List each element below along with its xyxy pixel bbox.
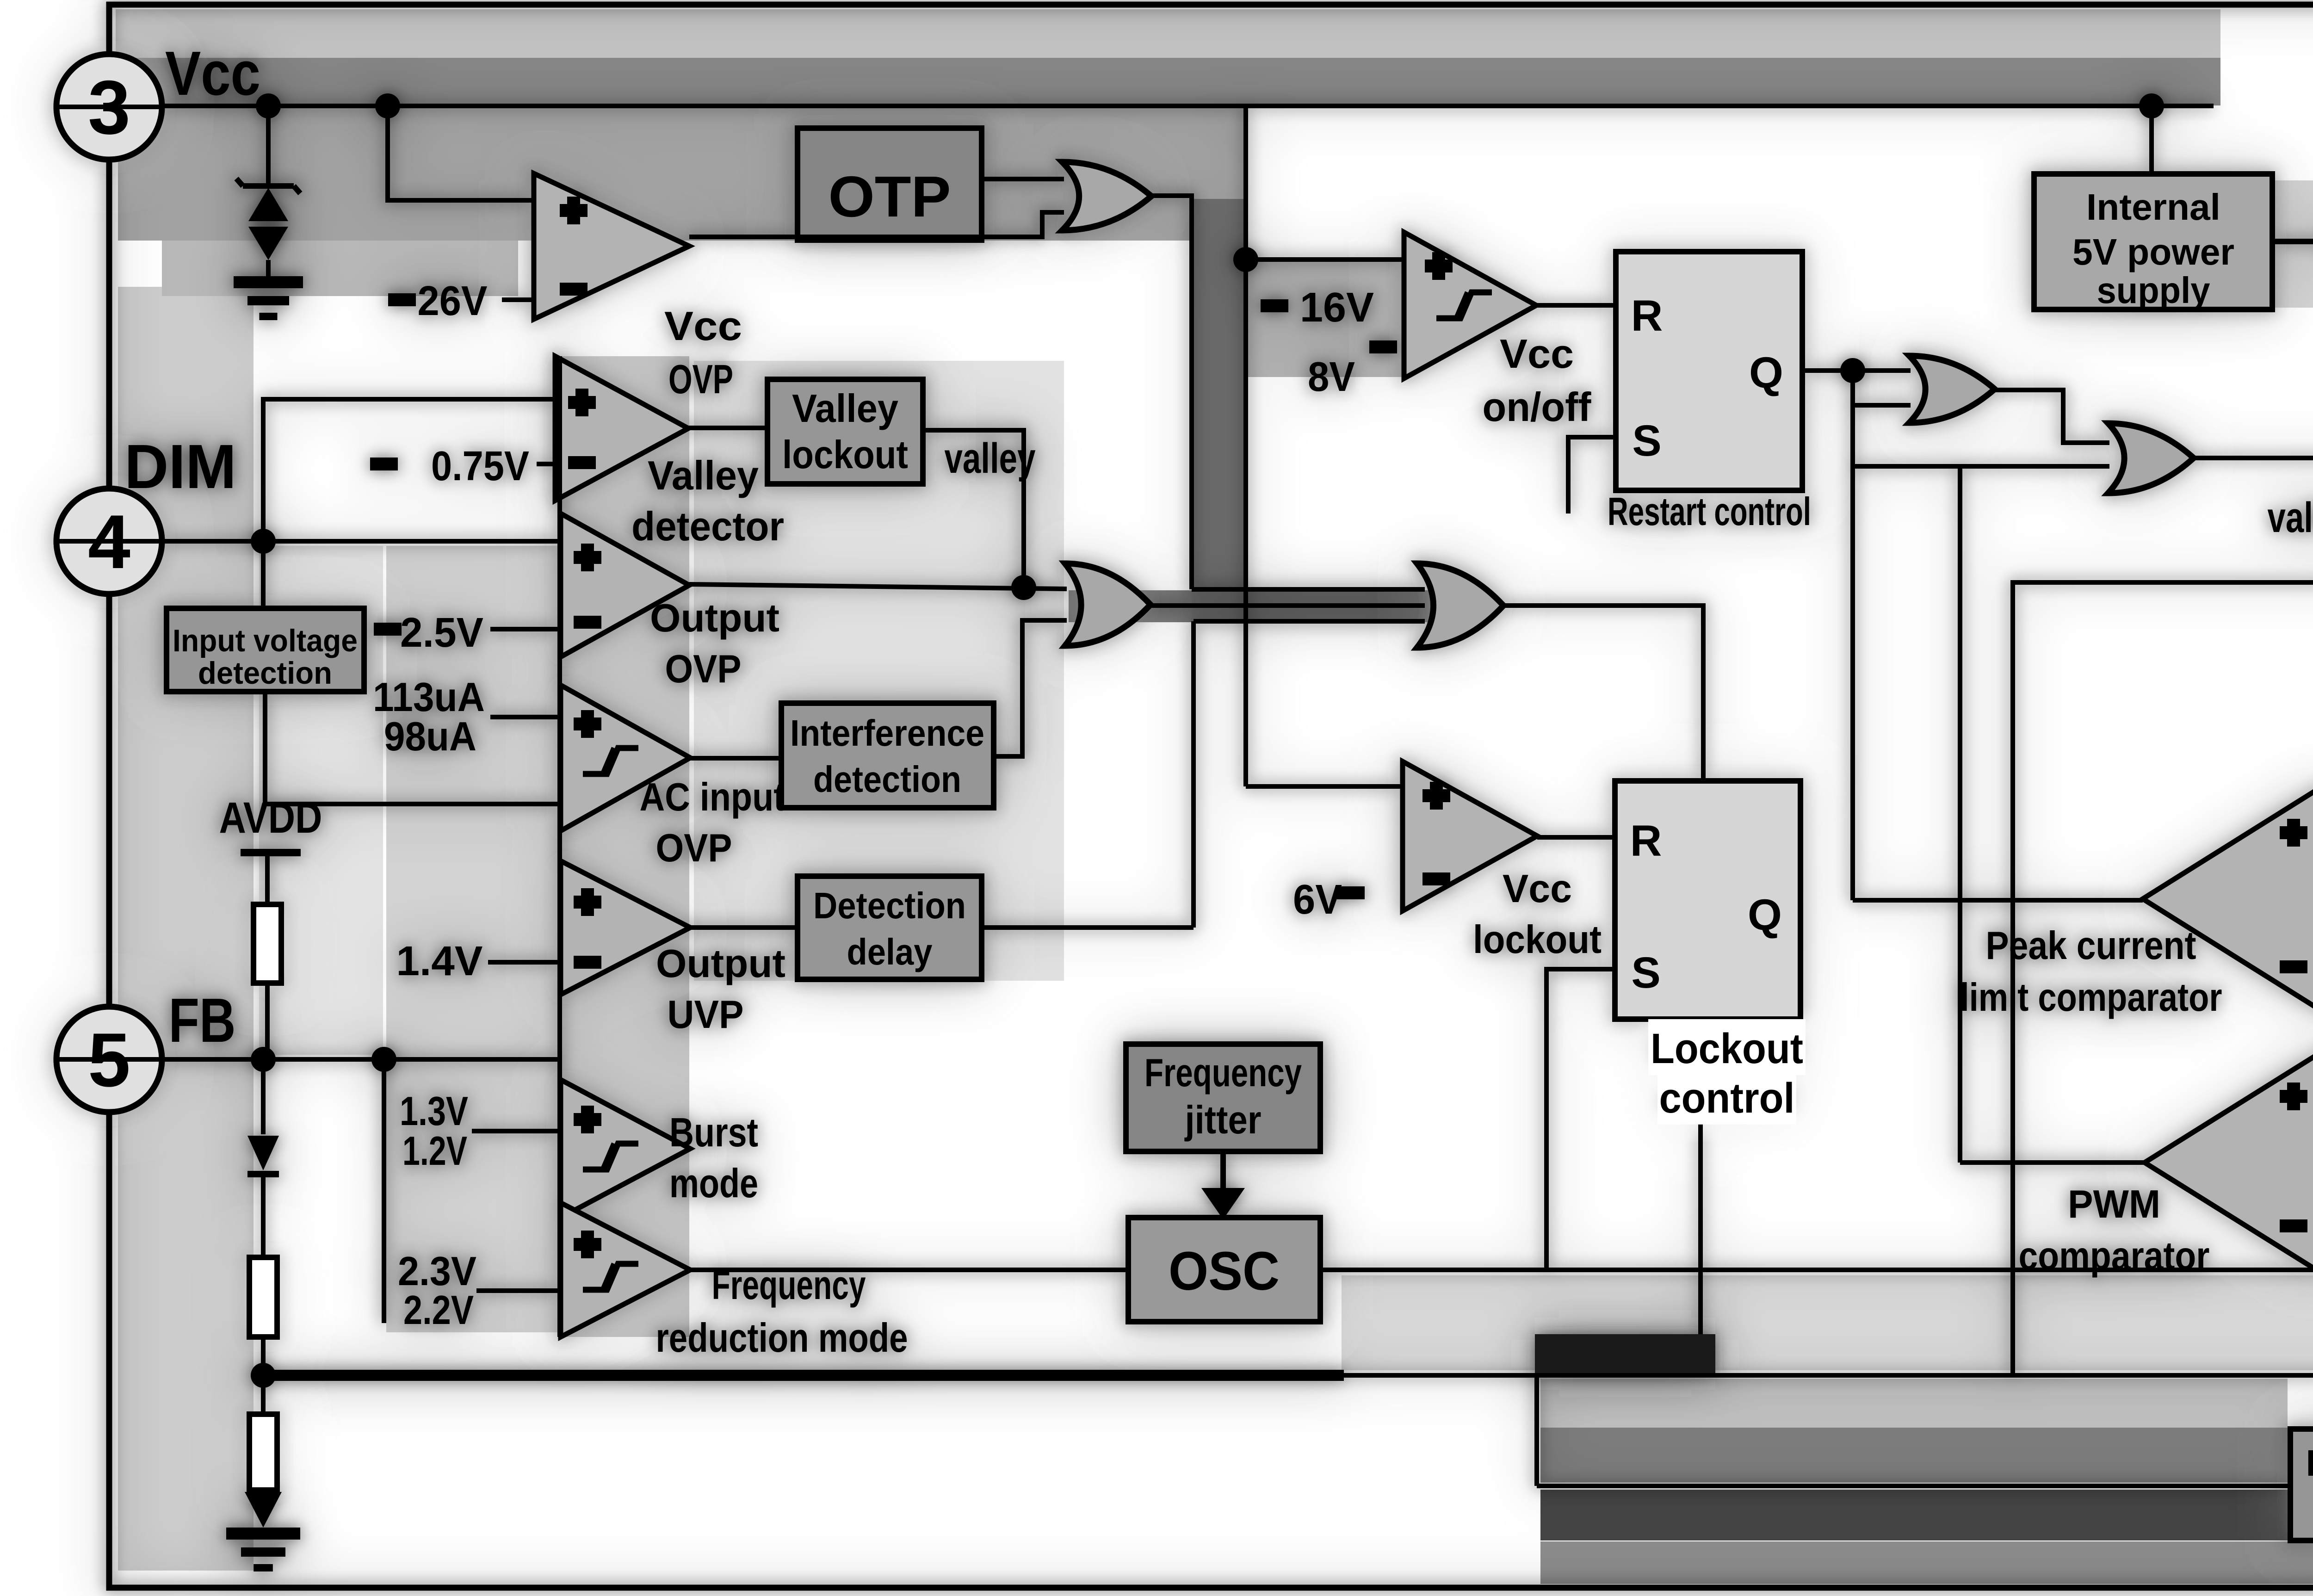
label Lockout control line2 (1657, 1069, 1796, 1125)
wire OTP to OR1 top input (982, 177, 1064, 181)
shade bottom band 1 (1540, 1379, 2288, 1428)
dash right of 2.5V (490, 627, 557, 631)
dash 2.3V to input (476, 1288, 557, 1293)
wire G5 output to lockout latch (1503, 606, 1703, 781)
wire G2 output to G3 (1995, 390, 2109, 443)
wire G5 output to lockout latch (1503, 606, 1703, 781)
wire S input FF2 from valley (2013, 582, 2313, 1375)
comparator U4 output OVP (561, 513, 689, 657)
svg-text:0.75V: 0.75V (431, 443, 529, 489)
wire G3 output to R of logic latch (2194, 456, 2313, 460)
label Lockout control line1 (1648, 1019, 1806, 1075)
dash 1.3V to input (472, 1129, 557, 1133)
plus U7 (574, 1106, 601, 1133)
plus input U2 (1425, 252, 1453, 280)
long feedback bus right (1337, 1373, 2313, 1378)
shade below zener row (162, 241, 518, 296)
minus U6 (574, 956, 601, 969)
wire to detection delay 2 input (1537, 1484, 2290, 1488)
wire detection box output to U5 (265, 692, 561, 804)
arrow jitter to OSC (1220, 1151, 1226, 1194)
svg-text:Lockout: Lockout (1651, 1025, 1803, 1072)
junction Vcc/OVP comparator (375, 93, 400, 118)
resistor R2 (249, 1257, 277, 1337)
wire G4 output to G5 (1150, 603, 1425, 608)
minus input U1 (560, 283, 588, 296)
plus U6 (574, 888, 601, 916)
wire Vcc bus from pin 3 (109, 104, 2214, 108)
long feedback bus left (thick) (263, 1370, 1344, 1381)
comparator U4 output OVP (561, 513, 689, 657)
hysteresis U8 (583, 1264, 638, 1290)
zener diode DZ1 to ground (266, 106, 271, 184)
svg-text:Vcc: Vcc (165, 38, 260, 108)
dash right of 0.75V (537, 462, 557, 466)
diode D2 below FB (261, 1059, 266, 1134)
junction Vcc/UVLO (1233, 247, 1258, 272)
minus U3 (568, 456, 596, 469)
wire G3 output to R of logic latch (2194, 456, 2313, 460)
wire detection delay signal into G5 bottom input (1194, 619, 1425, 624)
resistor R3 (249, 1414, 277, 1490)
wire Vcc to OVP comparator + input (388, 106, 534, 200)
dash 1.3V to input (472, 1129, 557, 1133)
dash 8V (1369, 340, 1397, 353)
arrow jitter to OSC (1220, 1151, 1226, 1194)
wire valley lockout output to OR G4 (923, 430, 1024, 589)
hysteresis U7 (583, 1144, 638, 1169)
hysteresis U5 (583, 748, 638, 774)
dash right of 26V to - input (502, 297, 534, 302)
wire Vcc down to UVLO and lockout comparator (1243, 106, 1248, 786)
plus U8 (574, 1231, 601, 1258)
wire S input FF1 (1568, 437, 1616, 513)
Frequency jitter box (1126, 1044, 1320, 1151)
wire peak current limit comparator output up to G2 (1850, 371, 1855, 900)
Detection delay box 2 (2290, 1429, 2313, 1540)
Input voltage detection box (167, 608, 364, 692)
svg-text:Detection: Detection (813, 885, 966, 926)
wire detection delay output up to G5 (1191, 621, 1196, 928)
wire U2 output to R of restart latch (1536, 303, 1616, 308)
Detection delay box 1 (798, 876, 982, 979)
dash 6V (1337, 886, 1365, 899)
wire U5 output to interference box (690, 756, 781, 761)
comparator U3 valley detector (555, 356, 688, 501)
junction FB divider / bus (251, 1363, 276, 1388)
hysteresis symbol U2 (1436, 292, 1492, 318)
wire detection delay box output (982, 925, 1194, 930)
dash 1.4V to input (488, 960, 557, 965)
minus input U1 (560, 283, 588, 296)
RS latch FF1 Restart control (1616, 252, 1802, 490)
junction Vcc/internal supply (2139, 93, 2164, 118)
junction valley/U4 output (1011, 575, 1036, 600)
junction FB/threshold bus (371, 1047, 396, 1072)
AVDD rail bar (241, 849, 301, 856)
junction Vcc/zener (256, 93, 281, 118)
wire S input FF3 from OSC line (1546, 969, 1615, 1270)
hysteresis U5 (583, 748, 638, 774)
plus U4 (574, 544, 601, 571)
wire interference output up to OR G4 (994, 620, 1067, 756)
dash left of 2.5V (374, 623, 402, 636)
pin 4 (DIM) (56, 489, 162, 594)
shade below Vcc bus (118, 107, 1244, 241)
arrow AVDD output (2272, 239, 2313, 244)
long feedback bus right (1337, 1373, 2313, 1378)
junction valley/U4 output (1011, 575, 1036, 600)
plus U4 (574, 544, 601, 571)
minus U10 (2280, 960, 2307, 973)
minus U11 (2280, 1219, 2307, 1232)
comparator stack input bus (557, 356, 562, 1337)
FB threshold sense bus down (382, 1059, 386, 1323)
hysteresis U7 (583, 1144, 638, 1169)
wire DIM up to valley detector + input (263, 399, 555, 541)
wire detection delay output up to G5 (1191, 621, 1196, 928)
wire Vcc to lockout comparator + input (1246, 784, 1403, 789)
svg-text:98uA: 98uA (384, 713, 476, 759)
comparator U6 output UVP (561, 861, 690, 995)
dash 8V (1369, 340, 1397, 353)
wire U8 output to OSC (690, 1268, 1128, 1272)
AVDD rail bar (241, 849, 301, 856)
RS latch FF3 Lockout control (1615, 781, 1800, 1019)
svg-text:Internal: Internal (2086, 186, 2220, 228)
svg-text:S: S (1632, 416, 1661, 465)
svg-text:PWM: PWM (2068, 1182, 2160, 1226)
wire Q of FF1 to OR gate G2 (1802, 368, 1911, 373)
comparator U8 frequency reduction (561, 1203, 690, 1337)
dash left of 0.75V (370, 458, 398, 470)
wire DIM pin to comparator stack (109, 539, 561, 544)
svg-text:valley: valley (2268, 494, 2313, 541)
svg-text:Peak current: Peak current (1986, 924, 2196, 968)
diode D3 to ground (245, 1492, 282, 1528)
plus U6 (574, 888, 601, 916)
wire U6 output to detection delay (690, 925, 798, 930)
plus input U2 (1425, 252, 1453, 280)
wire Vcc bus from pin 3 (109, 104, 2214, 108)
svg-text:Valley: Valley (792, 387, 898, 431)
plus U4 (574, 544, 601, 571)
wire U4 output to OR G4 top input (689, 584, 1067, 589)
minus U11 (2280, 1219, 2307, 1232)
OR gate G5 (1417, 563, 1503, 648)
wire Vcc to OVP comparator + input (388, 106, 534, 200)
wire Vcc to lockout comparator + input (1246, 784, 1403, 789)
pin 3 (Vcc) (56, 54, 162, 160)
hysteresis symbol U2 (1436, 292, 1492, 318)
svg-text:3: 3 (88, 65, 130, 150)
dash left of 2.5V (374, 623, 402, 636)
Detection delay box 1 (798, 876, 982, 979)
comparator U10 peak current limit (2143, 782, 2313, 1016)
plus U11 (2280, 1083, 2307, 1110)
wire bus down to detection delay 2 (1534, 1375, 1539, 1486)
minus U4 (574, 616, 601, 629)
OR gate G2 (1909, 356, 1995, 423)
wire detection delay output up to G5 (1191, 621, 1196, 928)
wire to G2 lower input (1853, 403, 1911, 408)
comparator U7 burst mode (561, 1080, 690, 1218)
plus U11 (2280, 1083, 2307, 1110)
wire to detection delay 2 input (1537, 1484, 2290, 1488)
svg-text:R: R (1631, 291, 1663, 340)
zener diode DZ1 to ground (266, 106, 271, 184)
dash left of 2.5V (374, 623, 402, 636)
svg-text:2.2V: 2.2V (403, 1287, 474, 1333)
OR gate G4 (1065, 563, 1150, 646)
wire Vcc to internal supply (2149, 106, 2154, 174)
plus U5 (574, 710, 601, 738)
wire U4 output to OR G4 top input (689, 584, 1067, 589)
label Lockout control line2 (1657, 1069, 1796, 1125)
Frequency jitter box (1126, 1044, 1320, 1151)
RS latch FF1 Restart control (1616, 252, 1802, 490)
plus input U1 (560, 197, 588, 224)
wire DIM down to input voltage detection (261, 541, 266, 608)
comparator U6 output UVP (561, 861, 690, 995)
shade threshold column (386, 546, 557, 1332)
plus U9 (1422, 782, 1450, 810)
shade OR bus lines (1069, 590, 1483, 622)
shade comparator stack (561, 356, 689, 1337)
OR gate G1 (OTP / Vcc OVP) (1062, 162, 1151, 230)
svg-text:Q: Q (1749, 348, 1783, 397)
dash left of 26V (388, 293, 416, 306)
svg-text:Detection: Detection (2306, 1442, 2313, 1484)
wire U6 output to detection delay (690, 925, 798, 930)
comparator U7 burst mode (561, 1080, 690, 1218)
svg-text:8V: 8V (1308, 354, 1355, 400)
svg-text:lockout: lockout (782, 433, 908, 477)
shade UVLO input area (1247, 261, 1402, 377)
svg-text:OTP: OTP (829, 165, 951, 229)
dash left of 16V (1261, 299, 1288, 312)
Valley lockout box (767, 379, 923, 484)
wire U3 to valley lockout (688, 426, 767, 430)
wire U5 output to interference box (690, 756, 781, 761)
comparator U1 Vcc OVP (26V) (534, 173, 689, 319)
minus U3 (568, 456, 596, 469)
wire G3 lower input (1853, 464, 2109, 469)
shade bottom band 4 (1540, 1541, 2313, 1584)
OR gate G5 (1417, 563, 1503, 648)
comparator U2 Vcc on/off (UVLO) (1404, 232, 1536, 378)
resistor R1 AVDD to FB (254, 904, 281, 983)
wire detection delay signal into G5 bottom input (1194, 619, 1425, 624)
minus U10 (2280, 960, 2307, 973)
minus U3 (568, 456, 596, 469)
pin 5 (FB) (56, 1007, 162, 1112)
OR gate G1 (OTP / Vcc OVP) (1062, 162, 1151, 230)
svg-text:S: S (1631, 948, 1660, 997)
svg-text:comparator: comparator (2019, 1234, 2210, 1278)
plus U10 (2280, 819, 2307, 847)
wire detection delay box output (982, 925, 1194, 930)
wire U4 output to OR G4 top input (689, 584, 1067, 589)
wire to UVLO + input (1246, 257, 1404, 262)
junction FB divider / bus (251, 1363, 276, 1388)
Valley lockout box (767, 379, 923, 484)
wire U8 output to OSC (690, 1268, 1128, 1272)
comparator U8 frequency reduction (561, 1203, 690, 1337)
resistor R1 AVDD to FB (254, 904, 281, 983)
svg-text:5: 5 (88, 1017, 130, 1102)
comparator U5 AC input OVP (561, 685, 690, 831)
dash right of 2.5V (490, 627, 557, 631)
wire interference output up to OR G4 (994, 620, 1067, 756)
pin 4 (DIM) (56, 489, 162, 594)
wire DIM pin to comparator stack (109, 539, 561, 544)
wire to G2 lower input (1853, 403, 1911, 408)
resistor R2 (249, 1257, 277, 1337)
OR gate G2 (1909, 356, 1995, 423)
svg-text:OVP: OVP (665, 647, 742, 691)
svg-text:1.3V: 1.3V (400, 1088, 468, 1134)
svg-text:6V: 6V (1293, 877, 1342, 923)
wire U2 output to R of restart latch (1536, 303, 1616, 308)
wire OTP to OR1 top input (982, 177, 1064, 181)
shade top band upper (116, 9, 2220, 58)
dash 1.4V to input (488, 960, 557, 965)
resistor R1 AVDD to FB (254, 904, 281, 983)
wire S input FF2 from valley (2013, 582, 2313, 1375)
dash 1.3V to input (472, 1129, 557, 1133)
wire Q of FF1 to OR gate G2 (1802, 368, 1911, 373)
long feedback bus left (thick) (263, 1370, 1344, 1381)
wire U9 output to R of lockout latch (1537, 835, 1615, 840)
svg-text:Frequency: Frequency (1144, 1051, 1302, 1095)
plus U3 (568, 389, 596, 416)
wire S input FF1 (1568, 437, 1616, 513)
plus U3 (568, 389, 596, 416)
svg-text:Vcc: Vcc (1503, 867, 1572, 911)
svg-text:Output: Output (656, 942, 785, 986)
svg-text:2.5V: 2.5V (400, 610, 483, 656)
arrow AVDD output (2272, 239, 2313, 244)
plus U5 (574, 710, 601, 738)
dash 113uA to input (490, 715, 557, 719)
Internal 5V power supply box (2034, 174, 2272, 309)
RS latch FF3 Lockout control (1615, 781, 1800, 1019)
plus U6 (574, 888, 601, 916)
wire branch down from G3 input (1958, 466, 1962, 1163)
svg-text:OVP: OVP (656, 826, 732, 870)
OR gate G2 (1909, 356, 1995, 423)
OTP box (798, 128, 982, 240)
shade left column (118, 287, 254, 1571)
shade vertical pair (1194, 199, 1247, 588)
plus U11 (2280, 1083, 2307, 1110)
wire U6 output to detection delay (690, 925, 798, 930)
Input voltage detection box (167, 608, 364, 692)
wire FF3 output down to bus (1698, 1019, 1703, 1375)
plus input U2 (1425, 252, 1453, 280)
OSC box (1128, 1218, 1320, 1322)
svg-text:Output: Output (650, 596, 779, 640)
shade bottom band 3 (1540, 1490, 2313, 1540)
label Lockout control line1 (1648, 1019, 1806, 1075)
svg-text:1.2V: 1.2V (402, 1128, 467, 1174)
comparator U9 Vcc lockout (1403, 761, 1537, 911)
Interference detection box (781, 703, 994, 808)
wire bus down to detection delay 2 (1534, 1375, 1539, 1486)
RS latch FF1 Restart control (1616, 252, 1802, 490)
svg-text:DIM: DIM (124, 432, 236, 501)
Valley lockout box (767, 379, 923, 484)
wire U8 output to OSC (690, 1268, 1128, 1272)
svg-text:1.4V: 1.4V (396, 938, 483, 984)
OR gate G4 (1065, 563, 1150, 646)
plus U3 (568, 389, 596, 416)
comparator U3 valley detector (555, 356, 688, 501)
svg-text:R: R (1630, 817, 1662, 866)
plus U10 (2280, 819, 2307, 847)
resistor R3 (249, 1414, 277, 1490)
svg-text:OVP: OVP (668, 356, 733, 402)
wire Vcc down to UVLO and lockout comparator (1243, 106, 1248, 786)
wire to UVLO + input (1246, 257, 1404, 262)
comparator U11 PWM (2145, 1047, 2313, 1278)
hysteresis symbol U2 (1436, 292, 1492, 318)
resistor R3 (249, 1414, 277, 1490)
wire U1 output to OR1 bottom input (689, 212, 1064, 237)
plus U9 (1422, 782, 1450, 810)
svg-text:AVDD: AVDD (219, 793, 322, 842)
svg-text:OSC: OSC (1169, 1241, 1280, 1302)
svg-text:Restart control: Restart control (1608, 490, 1811, 534)
comparator U8 frequency reduction (561, 1203, 690, 1337)
dash 113uA to input (490, 715, 557, 719)
comparator U1 Vcc OVP (26V) (534, 173, 689, 319)
wire Vcc to OVP comparator + input (388, 106, 534, 200)
wire DIM down to input voltage detection (261, 541, 266, 608)
pin 3 (Vcc) (56, 54, 162, 160)
wire S input FF3 from OSC line (1546, 969, 1615, 1270)
comparator U9 Vcc lockout (1403, 761, 1537, 911)
dash left of 26V (388, 293, 416, 306)
wire G1 output down to OR G5 (1151, 196, 1192, 589)
wire Vcc to lockout comparator + input (1246, 784, 1403, 789)
wire G1 output into G5 top input (1192, 587, 1425, 592)
plus U9 (1422, 782, 1450, 810)
junction Vcc/OVP comparator (375, 93, 400, 118)
svg-text:detection: detection (198, 656, 332, 691)
wire U5 output to interference box (690, 756, 781, 761)
comparator U1 Vcc OVP (26V) (534, 173, 689, 319)
OR gate G3 (2108, 423, 2194, 493)
svg-text:jitter: jitter (1184, 1098, 1262, 1142)
wire DIM pin to comparator stack (109, 539, 561, 544)
svg-text:mode: mode (669, 1160, 758, 1206)
wire G1 output into G5 top input (1192, 587, 1425, 592)
wire DIM up to valley detector + input (263, 399, 555, 541)
junction Vcc/OVP comparator (375, 93, 400, 118)
wire G1 output into G5 top input (1192, 587, 1425, 592)
pin 3 (Vcc) (56, 54, 162, 160)
hysteresis U8 (583, 1264, 638, 1290)
svg-text:16V: 16V (1300, 285, 1374, 331)
hysteresis U8 (583, 1264, 638, 1290)
wire peak current limit comparator output up to G2 (1850, 371, 1855, 900)
dash left of 26V (388, 293, 416, 306)
FB threshold sense bus down (382, 1059, 386, 1323)
Detection delay box 1 (798, 876, 982, 979)
OTP box (798, 128, 982, 240)
